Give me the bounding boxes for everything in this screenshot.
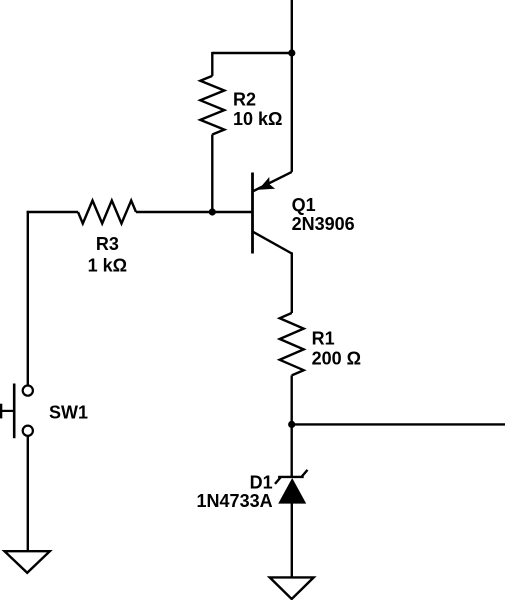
svg-text:SW1: SW1 — [49, 403, 88, 423]
svg-text:2N3906: 2N3906 — [292, 214, 355, 234]
svg-text:10 kΩ: 10 kΩ — [233, 109, 282, 129]
svg-text:R2: R2 — [233, 89, 256, 109]
transistor Q1 — [253, 172, 292, 254]
svg-text:1N4733A: 1N4733A — [197, 491, 273, 511]
label SW1 — [49, 403, 88, 423]
wire collector vertical — [291, 252, 293, 313]
wire output right — [292, 423, 505, 425]
node junction top — [288, 49, 295, 56]
ground bottom left — [5, 551, 50, 573]
wire node to zener — [291, 424, 293, 478]
wire R3 to base — [136, 211, 253, 213]
resistor R2 — [200, 76, 224, 135]
svg-text:Q1: Q1 — [292, 195, 316, 215]
label R1 value — [312, 329, 361, 369]
label R2 value — [233, 89, 282, 129]
wire top horizontal to R2 — [212, 52, 291, 54]
wire R2 bottom lead — [211, 135, 213, 213]
wire switch to ground — [27, 436, 29, 551]
wire zener to ground — [291, 503, 293, 577]
wire top rail to emitter — [291, 0, 293, 172]
label D1 — [197, 473, 273, 512]
ground bottom center — [270, 577, 314, 599]
diode D1 zener — [275, 470, 308, 504]
resistor R1 — [280, 313, 304, 375]
wire left vertical to switch — [27, 211, 29, 386]
wire R2 top lead — [211, 52, 213, 76]
node output junction — [288, 421, 295, 428]
label R3 value — [88, 234, 127, 276]
label Q1 — [292, 195, 355, 234]
svg-text:1 kΩ: 1 kΩ — [88, 255, 127, 275]
wire left to R3 — [27, 211, 78, 213]
svg-text:200 Ω: 200 Ω — [312, 349, 361, 369]
node base junction — [209, 208, 216, 215]
switch SW1 — [1, 384, 33, 439]
svg-text:R3: R3 — [96, 234, 119, 254]
svg-text:R1: R1 — [312, 329, 335, 349]
wire R1 to output node — [291, 375, 293, 424]
resistor R3 — [78, 201, 136, 224]
svg-text:D1: D1 — [250, 473, 273, 493]
